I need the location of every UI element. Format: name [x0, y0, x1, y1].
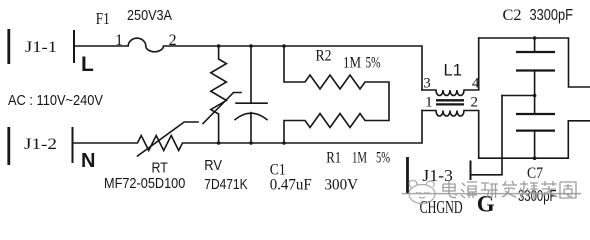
svg-text:J1-2: J1-2: [24, 135, 57, 153]
svg-text:0.47uF: 0.47uF: [270, 175, 312, 193]
svg-text:N: N: [81, 150, 95, 172]
svg-text:AC : 110V~240V: AC : 110V~240V: [8, 92, 103, 109]
svg-text:1: 1: [115, 32, 123, 49]
svg-text:3300pF: 3300pF: [530, 7, 574, 24]
svg-text:5%: 5%: [376, 148, 390, 166]
svg-text:C7: C7: [527, 164, 543, 182]
svg-text:4: 4: [472, 76, 480, 92]
svg-text:RV: RV: [204, 157, 222, 174]
svg-text:3: 3: [423, 76, 431, 92]
svg-text:250V3A: 250V3A: [127, 7, 172, 24]
svg-text:RT: RT: [152, 160, 168, 177]
svg-text:L: L: [81, 53, 94, 76]
svg-text:300V: 300V: [325, 175, 359, 193]
svg-text:2: 2: [169, 32, 177, 49]
svg-text:5%: 5%: [366, 54, 381, 72]
svg-text:L1: L1: [444, 62, 463, 80]
svg-text:MF72-05D100: MF72-05D100: [104, 175, 185, 192]
svg-text:7D471K: 7D471K: [204, 176, 247, 193]
svg-text:1M: 1M: [343, 54, 361, 72]
svg-text:J1-1: J1-1: [25, 38, 57, 56]
svg-text:F1: F1: [96, 9, 110, 28]
svg-text:CHGND: CHGND: [420, 197, 463, 217]
svg-text:2: 2: [471, 95, 479, 111]
svg-text:1M: 1M: [352, 148, 367, 166]
svg-text:C2: C2: [503, 6, 522, 24]
svg-text:R2: R2: [316, 47, 332, 65]
svg-text:R1: R1: [326, 148, 341, 166]
svg-text:1: 1: [425, 95, 433, 111]
